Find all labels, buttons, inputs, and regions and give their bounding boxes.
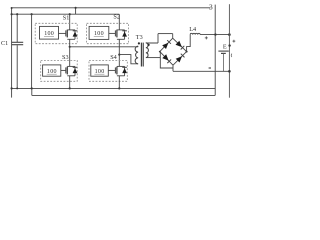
wire output+ <box>200 34 229 36</box>
bridge diode D2 triangle <box>176 41 182 47</box>
S3 drain bar <box>67 65 75 67</box>
T3 core line left <box>140 43 142 67</box>
svg-text:L4: L4 <box>189 26 196 33</box>
T3 secondary winding <box>146 43 149 58</box>
S3 driver block 100 <box>43 65 61 76</box>
bridge diode D1 cathode bar <box>167 40 171 44</box>
svg-text:C1: C1 <box>1 40 8 47</box>
bridge diode D4 triangle <box>176 56 182 62</box>
battery E short plate <box>221 52 226 54</box>
bridge diode D1 triangle <box>162 43 168 49</box>
T3 core line right <box>142 43 144 67</box>
wire riser bus link x=31.6 <box>31 14 33 88</box>
node A wire (S1/S3 midpoint to T3 primary top) <box>69 46 139 67</box>
svg-text:3: 3 <box>209 2 213 11</box>
S4 driver block 100 <box>91 65 109 76</box>
plus sign output+ <box>205 36 208 39</box>
inductor L4 and output <box>173 4 235 98</box>
junction dot output- right end <box>228 70 231 73</box>
S4 source bar <box>117 75 125 77</box>
S1 source riser <box>69 39 71 47</box>
node dot S1 drain <box>69 13 71 15</box>
node dot C1 bottom <box>16 87 18 89</box>
wire bridge right jog to L4 <box>187 35 191 52</box>
S1 drain bar <box>67 29 75 31</box>
frame bottom border (box 3) <box>32 94 215 96</box>
node dot W1 left end <box>11 13 13 15</box>
S4 gate lead <box>108 69 115 71</box>
S2 gate bar <box>114 30 116 36</box>
S3 dashed enclosure <box>41 60 77 81</box>
S2 drain bar <box>117 29 125 31</box>
bridge right corner dot <box>186 51 188 53</box>
wire input+ rail W1 <box>12 13 120 15</box>
capacitor C1 bottom lead <box>16 45 18 88</box>
capacitor C1 top plate <box>11 41 23 43</box>
node dot S4 source on W2 <box>118 87 120 89</box>
S3 source bar <box>67 75 75 77</box>
S4 label underline <box>94 73 104 75</box>
S2 label underline <box>94 36 104 38</box>
node dot S3 source on W2 <box>69 87 71 89</box>
S3 body diode cathode bar <box>73 66 78 68</box>
bridge diode D4 cathode bar <box>181 54 185 58</box>
S2 source riser through node B to S4 drain <box>118 39 120 66</box>
junction dot output+ right end <box>228 33 231 36</box>
S1 body diode triangle <box>73 32 78 37</box>
wire output- <box>173 70 229 72</box>
plus sign battery positive <box>233 40 236 43</box>
S4 gate bar <box>114 67 116 73</box>
wire AC1 riser <box>157 34 159 43</box>
switch cell S3 <box>41 54 78 88</box>
S1 driver block 100 <box>40 26 59 39</box>
bridge edge upper-left <box>160 38 173 51</box>
corner junction dot top-left <box>11 7 13 9</box>
T3 primary polarity dot <box>138 42 140 44</box>
wire AC1 jog to bridge top <box>158 33 173 35</box>
node dot riser top <box>31 13 33 15</box>
svg-text:S2: S2 <box>113 14 120 21</box>
frame top border (box 3) <box>12 7 211 9</box>
capacitor C1 top lead <box>16 14 18 42</box>
T3 secondary polarity dot <box>148 44 150 46</box>
S2 drain corner from W1 <box>118 14 120 30</box>
S1 body diode leg <box>74 30 76 39</box>
bridge diode D3 triangle <box>162 54 168 60</box>
S3 body diode triangle <box>73 68 78 73</box>
S1 source bar <box>67 38 75 40</box>
svg-text:S4: S4 <box>110 54 117 61</box>
bridge left corner dot <box>159 51 161 53</box>
node B wire staircase to T3 primary bottom <box>119 55 138 64</box>
battery E long plate <box>218 50 228 52</box>
wire riser corner into bottom border <box>31 88 33 95</box>
S2 driver block 100 <box>89 26 109 39</box>
S2 source bar <box>117 38 125 40</box>
small curved mark near battery negative <box>230 54 233 57</box>
S1 label underline <box>44 35 54 37</box>
bridge edge upper-right <box>173 38 187 51</box>
svg-text:S3: S3 <box>62 54 69 61</box>
bridge edge lower-left <box>160 52 173 66</box>
S3 body diode leg <box>74 66 76 75</box>
svg-text:E: E <box>223 43 227 50</box>
node dot riser bottom <box>31 87 33 89</box>
transformer T3 <box>135 34 173 68</box>
S1 channel bar <box>66 30 68 38</box>
T3 secondary top lead <box>146 42 158 44</box>
S3 gate lead <box>61 69 66 71</box>
wire bridge left descender <box>160 52 173 68</box>
wire input- rail W2 <box>12 87 216 89</box>
node B junction dot <box>118 54 120 56</box>
diode bridge rectifier <box>159 35 190 72</box>
S1 body diode cathode bar <box>73 30 78 32</box>
battery E bottom lead <box>222 53 224 71</box>
inductor L4 winding <box>190 33 200 34</box>
junction dot on outer vertical <box>228 44 230 46</box>
S1 gate lead <box>59 32 66 34</box>
S1 gate bar <box>65 30 67 36</box>
node dot W2 left end <box>11 87 13 89</box>
junction dot on top border <box>75 7 77 9</box>
svg-text:S1: S1 <box>63 15 70 22</box>
S4 body diode leg <box>124 66 126 75</box>
node dot C1 top <box>16 13 18 15</box>
wire outer right vertical <box>228 4 230 98</box>
S4 channel bar <box>116 67 118 75</box>
capacitor C1 bottom plate <box>11 44 23 46</box>
S4 dashed enclosure <box>89 60 127 81</box>
switch cell S2 <box>87 14 129 67</box>
bridge edge lower-right <box>173 52 187 66</box>
minus polarity mark <box>209 67 211 69</box>
S2 channel bar <box>116 30 118 38</box>
S3 channel bar <box>66 67 68 75</box>
node A junction dot <box>69 46 71 48</box>
frame right border (box 3) <box>214 5 216 96</box>
wire S1 drain riser <box>69 14 71 30</box>
bridge diode D2 cathode bar <box>181 46 185 50</box>
frame left border (box 3) <box>11 8 13 98</box>
S2 body diode cathode bar <box>122 30 127 32</box>
S2 dashed enclosure <box>87 23 129 43</box>
S1 dashed enclosure <box>35 23 77 43</box>
S2 body diode triangle <box>122 32 127 37</box>
T3 primary winding <box>135 46 138 64</box>
S4 body diode cathode bar <box>122 66 127 68</box>
S3 label underline <box>47 73 57 75</box>
svg-text:T3: T3 <box>136 34 143 41</box>
S3 drain riser <box>69 47 71 67</box>
S2 body diode leg <box>124 30 126 39</box>
junction dot output+ on frame border <box>214 33 216 35</box>
switch cell S1 <box>35 15 77 47</box>
switch cell S4 <box>89 54 127 88</box>
S3 source riser to W2 <box>69 76 71 89</box>
wire bridge top stub <box>172 34 174 39</box>
wire bridge bottom stub <box>172 65 174 71</box>
bridge diode D3 cathode bar <box>167 60 171 64</box>
wire riser from top border to input+ rail at x=75.6 <box>75 8 77 14</box>
S2 gate lead <box>109 32 116 34</box>
S4 source riser to W2 <box>118 76 120 89</box>
S4 drain bar <box>117 65 125 67</box>
T3 secondary bottom lead <box>146 57 160 59</box>
S3 gate bar <box>65 67 67 73</box>
S4 body diode triangle <box>122 68 127 73</box>
